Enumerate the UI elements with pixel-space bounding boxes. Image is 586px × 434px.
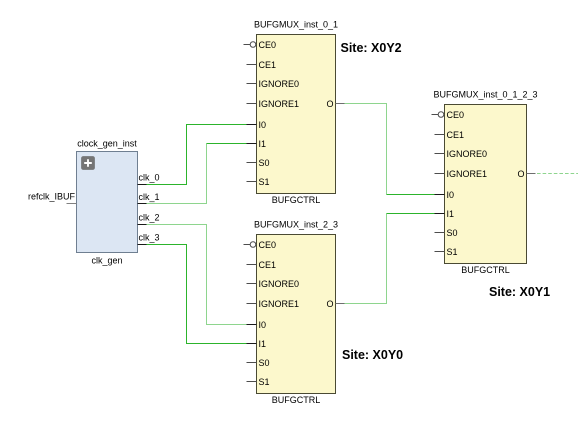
svg-text:S1: S1 — [447, 247, 458, 257]
U1 pin O — [326, 99, 344, 109]
site label Site: X0Y2 — [341, 41, 402, 55]
U3 buffer mux BUFGMUX_inst_0_1_2_3 — [433, 90, 537, 276]
wire clk_0 (clock box to U1 I0) — [147, 125, 248, 185]
svg-text:CE1: CE1 — [259, 60, 277, 70]
svg-text:clk_gen: clk_gen — [91, 256, 122, 266]
svg-text:Site: X0Y2: Site: X0Y2 — [341, 41, 402, 55]
site label Site: X0Y1 — [489, 285, 550, 299]
svg-text:BUFGCTRL: BUFGCTRL — [272, 395, 321, 405]
svg-text:BUFGMUX_inst_0_1_2_3: BUFGMUX_inst_0_1_2_3 — [433, 90, 537, 100]
svg-text:clk_1: clk_1 — [139, 192, 160, 202]
U1 pin I1 — [247, 139, 267, 149]
svg-text:IGNORE0: IGNORE0 — [259, 279, 300, 289]
U3 pin I0 — [435, 190, 455, 200]
svg-text:IGNORE0: IGNORE0 — [259, 79, 300, 89]
U2 pin CE1 — [247, 260, 277, 270]
svg-text:I0: I0 — [259, 120, 267, 130]
wire dashed output net from U3 O — [537, 173, 578, 175]
U2 pin IGNORE1 — [247, 299, 300, 309]
svg-text:S1: S1 — [259, 177, 270, 187]
pin clk_3 — [138, 233, 160, 245]
U3 pin IGNORE1 — [435, 169, 488, 179]
svg-text:O: O — [517, 169, 524, 179]
svg-text:IGNORE1: IGNORE1 — [259, 99, 300, 109]
U2 pin CE0 — [244, 240, 277, 250]
pin clk_0 — [138, 173, 160, 185]
U3 pin CE0 — [432, 110, 465, 120]
svg-text:I0: I0 — [259, 320, 267, 330]
U1 pin S1 — [247, 177, 270, 187]
svg-text:BUFGCTRL: BUFGCTRL — [272, 195, 321, 205]
U2 pin S0 — [247, 358, 270, 368]
pin clk_2 — [138, 213, 160, 225]
svg-text:CE1: CE1 — [259, 260, 277, 270]
U2 pin I0 — [247, 320, 267, 330]
U2 pin IGNORE0 — [247, 279, 300, 289]
U3 pin IGNORE0 — [435, 149, 488, 159]
U3 pin S1 — [435, 247, 458, 257]
svg-text:CE1: CE1 — [447, 130, 465, 140]
wire clk_2 (clock box to U2 I0) — [147, 225, 248, 325]
svg-text:I1: I1 — [447, 209, 455, 219]
U3 pin CE1 — [435, 130, 465, 140]
wire clk_1 (clock box to U1 I1) — [147, 144, 248, 204]
svg-text:clk_3: clk_3 — [139, 233, 160, 243]
svg-text:BUFGMUX_inst_0_1: BUFGMUX_inst_0_1 — [254, 20, 338, 30]
svg-text:Site: X0Y1: Site: X0Y1 — [489, 285, 550, 299]
svg-text:clock_gen_inst: clock_gen_inst — [77, 139, 137, 149]
site label Site: X0Y0 — [342, 348, 403, 362]
svg-text:CE0: CE0 — [259, 40, 277, 50]
U3 pin I1 — [435, 209, 455, 219]
U1 pin CE0 — [244, 40, 277, 50]
U2 buffer mux BUFGMUX_inst_2_3 — [254, 220, 338, 406]
svg-text:clk_2: clk_2 — [139, 213, 160, 223]
svg-text:IGNORE0: IGNORE0 — [447, 149, 488, 159]
svg-text:O: O — [326, 299, 333, 309]
pin clk_1 — [138, 192, 160, 204]
U2 pin O — [326, 299, 344, 309]
U2 pin I1 — [247, 339, 267, 349]
U2 pin S1 — [247, 377, 270, 387]
U1 pin IGNORE1 — [247, 99, 300, 109]
pin refclk_IBUF — [28, 192, 77, 204]
U1 buffer mux BUFGMUX_inst_0_1 — [254, 20, 338, 206]
U1 pin I0 — [247, 120, 267, 130]
U1 pin S0 — [247, 158, 270, 168]
wire clk_3 (clock box to U2 I1) — [147, 245, 248, 344]
svg-text:S0: S0 — [447, 228, 458, 238]
svg-text:S0: S0 — [259, 358, 270, 368]
svg-text:I0: I0 — [447, 190, 455, 200]
svg-text:IGNORE1: IGNORE1 — [447, 169, 488, 179]
U3 pin O — [517, 169, 535, 179]
U1 pin IGNORE0 — [247, 79, 300, 89]
svg-text:O: O — [326, 99, 333, 109]
svg-text:S0: S0 — [259, 158, 270, 168]
svg-text:CE0: CE0 — [259, 240, 277, 250]
svg-text:CE0: CE0 — [447, 110, 465, 120]
svg-text:refclk_IBUF: refclk_IBUF — [28, 192, 76, 202]
svg-text:I1: I1 — [259, 139, 267, 149]
wire net clkmux_0_1 (U1 O to U3 I0) — [345, 104, 436, 195]
svg-text:S1: S1 — [259, 377, 270, 387]
block clock_gen_inst (clk_gen) — [77, 139, 138, 266]
wire net clkmux_2_3 (U2 O to U3 I1) — [345, 214, 436, 304]
svg-text:BUFGMUX_inst_2_3: BUFGMUX_inst_2_3 — [254, 220, 338, 230]
U1 pin CE1 — [247, 60, 277, 70]
svg-text:IGNORE1: IGNORE1 — [259, 299, 300, 309]
svg-text:I1: I1 — [259, 339, 267, 349]
svg-text:clk_0: clk_0 — [139, 173, 160, 183]
svg-text:Site: X0Y0: Site: X0Y0 — [342, 348, 403, 362]
U3 pin S0 — [435, 228, 458, 238]
svg-text:BUFGCTRL: BUFGCTRL — [461, 265, 510, 275]
